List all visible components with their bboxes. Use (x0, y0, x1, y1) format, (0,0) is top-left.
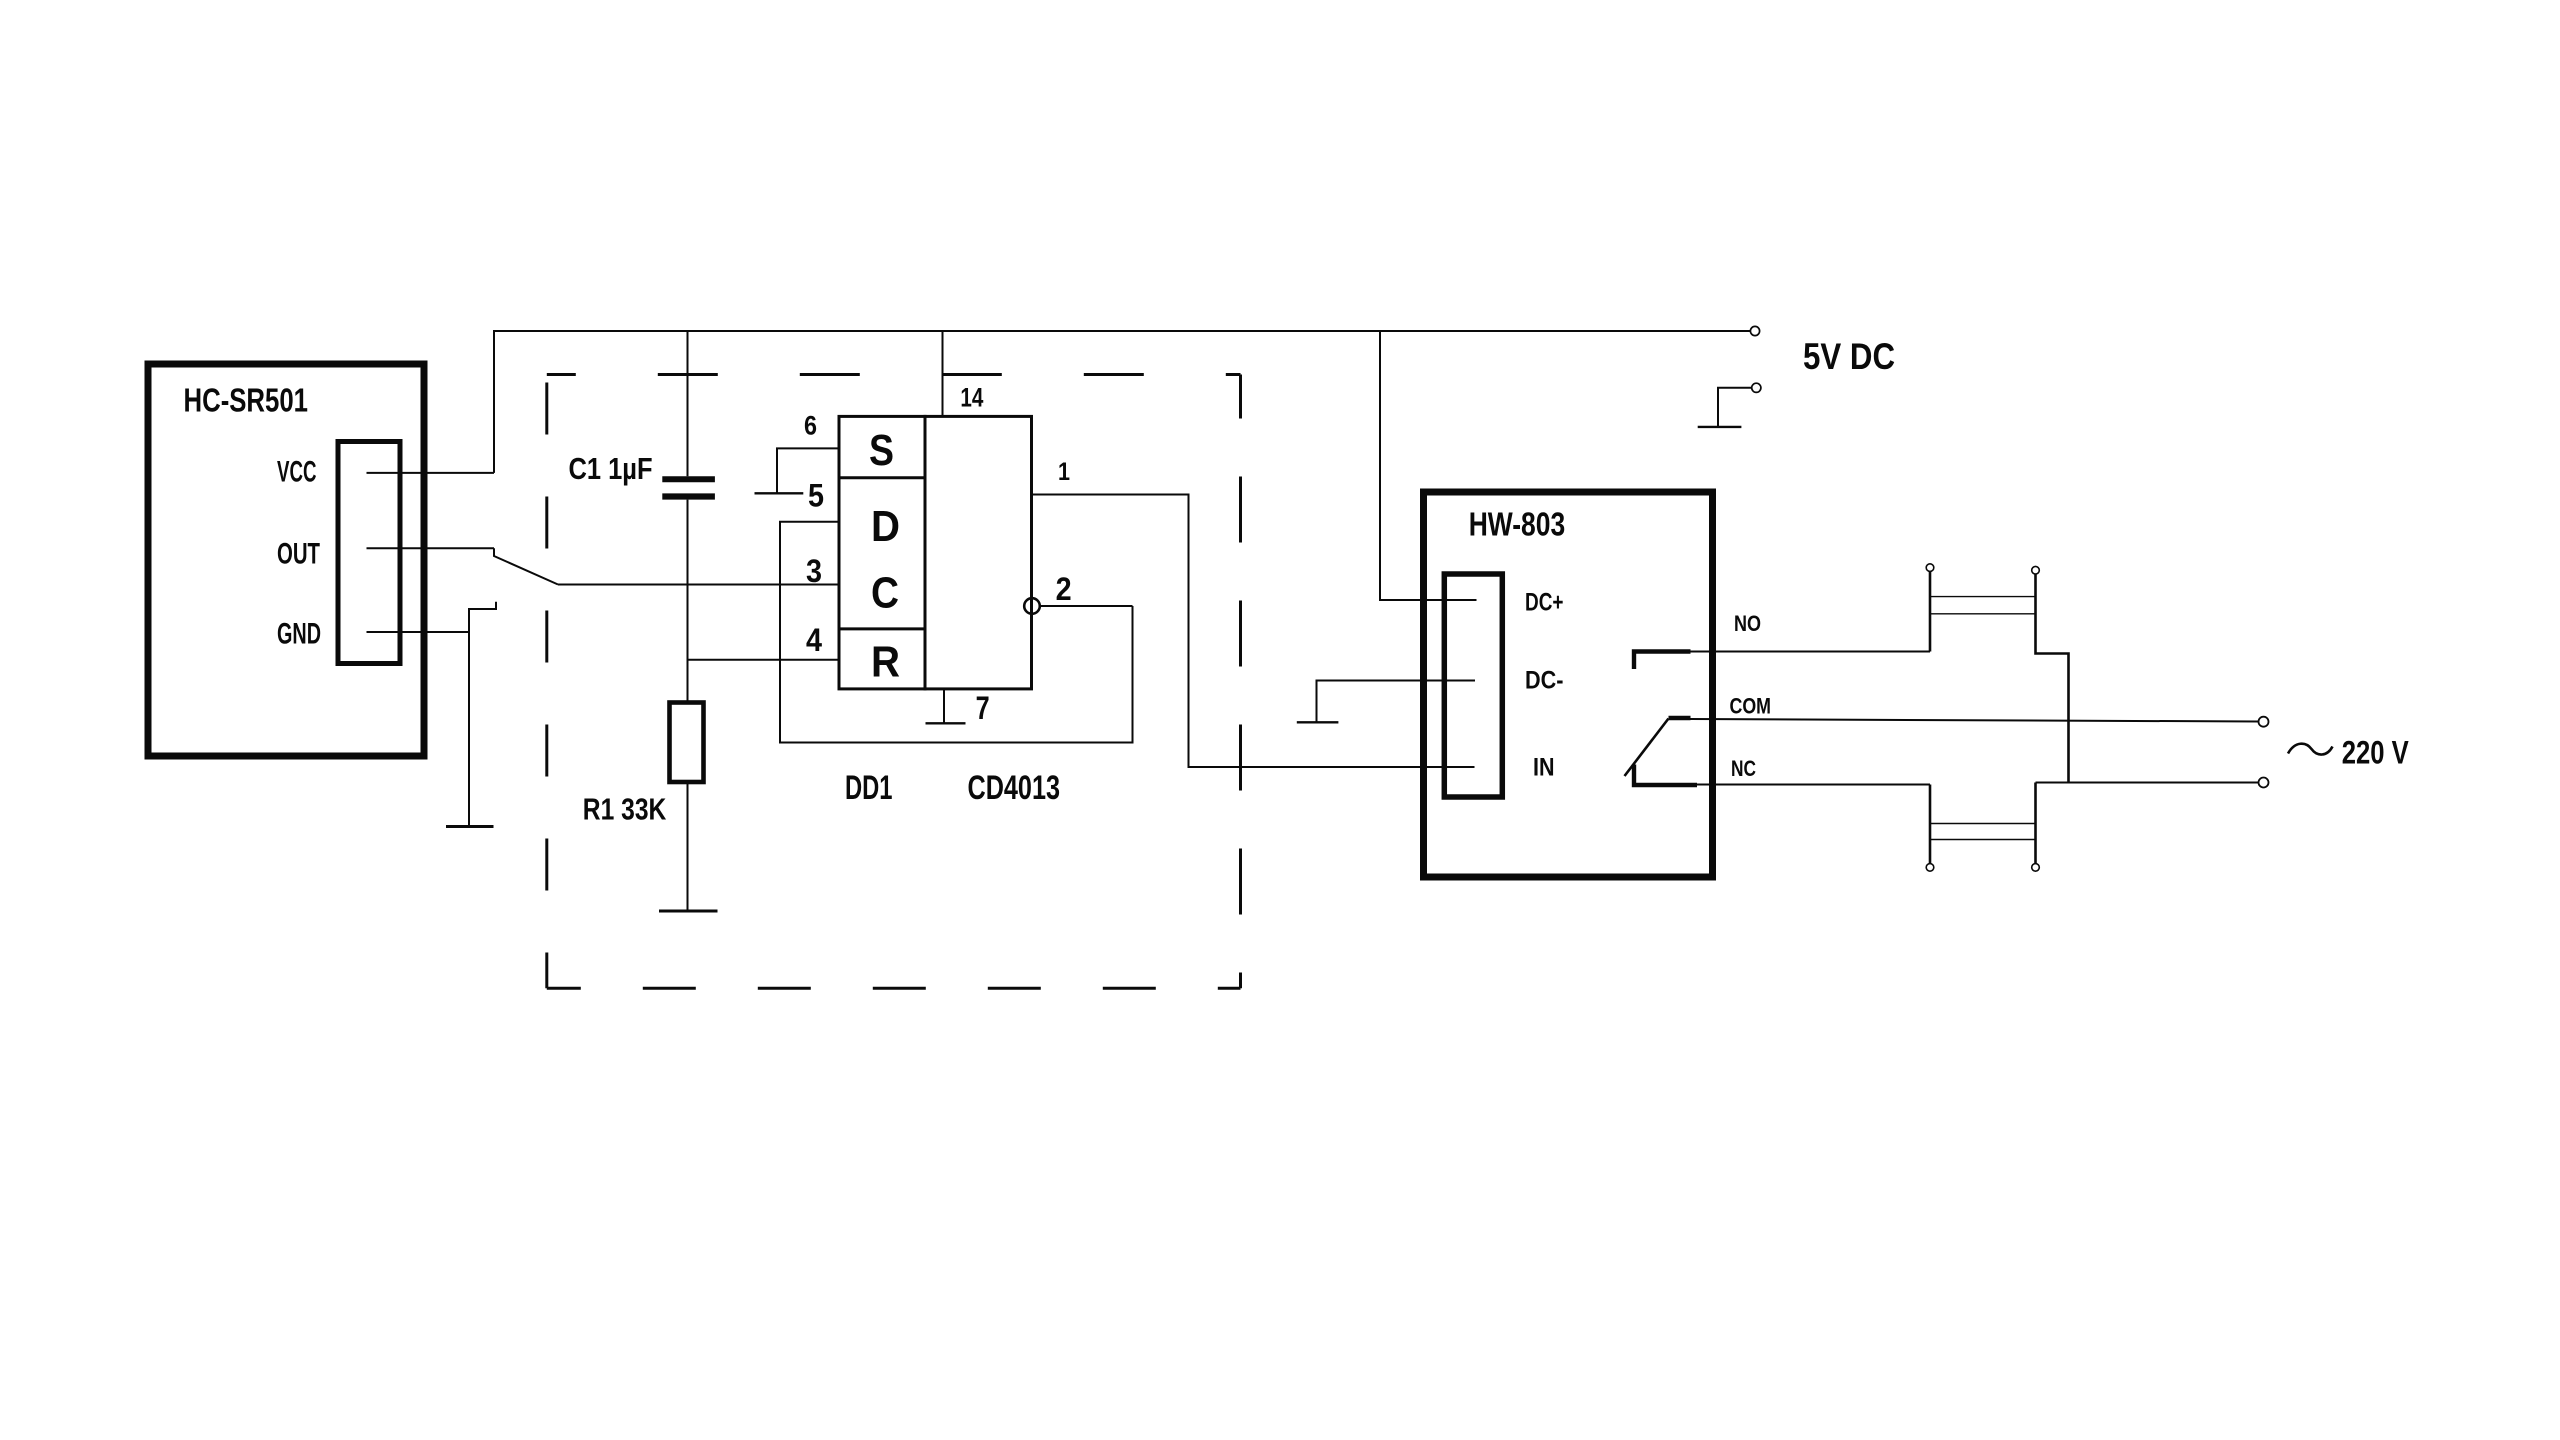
relay NO fixed contact (1634, 652, 1691, 670)
pin 2 inversion bubble (1024, 598, 1040, 614)
lamp EL1 right lead (2036, 574, 2069, 783)
svg-text:DC+: DC+ (1525, 589, 1564, 617)
pin VCC wire (367, 472, 495, 474)
wire 220V return line (2036, 782, 2259, 784)
lamp EL2 right lead (2034, 783, 2037, 864)
dashed enclosure left border (545, 375, 548, 989)
svg-text:R1 33K: R1 33K (583, 792, 667, 827)
module HC-SR501 box (148, 364, 424, 756)
pin 5 tie bar (755, 492, 804, 494)
svg-text:D: D (871, 502, 900, 551)
lamp EL1 left lead (1929, 571, 1932, 651)
svg-text:COM: COM (1730, 694, 1772, 719)
svg-text:14: 14 (960, 382, 983, 412)
ground symbol below R1 (659, 910, 718, 913)
pin 1 output wire to IN (1032, 495, 1475, 768)
svg-text:CD4013: CD4013 (968, 769, 1061, 807)
wire 5V DC negative lead (1718, 388, 1752, 427)
svg-text:HC-SR501: HC-SR501 (184, 383, 309, 420)
svg-text:S: S (869, 426, 894, 475)
connector of HC-SR501 (338, 442, 400, 664)
op-amp/flip-flop DD1 input section box (839, 416, 925, 689)
wire OUT switch stub (494, 548, 558, 584)
capacitor C1 lead top (687, 331, 689, 476)
flip-flop DD1 S/D divider (839, 476, 925, 479)
wire DC- to ground (1317, 681, 1476, 723)
AC tilde symbol (2288, 744, 2333, 755)
svg-text:DD1: DD1 (845, 769, 893, 807)
ground symbol at 5V DC negative (1698, 426, 1742, 428)
pin GND wire (367, 631, 470, 633)
svg-text:2: 2 (1056, 571, 1072, 607)
pin OUT wire (367, 547, 495, 549)
lamp EL2 socket right pin (2032, 864, 2040, 872)
svg-text:6: 6 (804, 411, 817, 441)
pin 7 ground wire (943, 689, 945, 723)
svg-text:C1 1µF: C1 1µF (569, 451, 653, 486)
svg-text:DC-: DC- (1525, 667, 1564, 695)
lamp EL2 left lead (1929, 785, 1932, 864)
pin 14 supply wire (942, 331, 944, 416)
lamp EL1 socket left pin (1926, 564, 1934, 572)
svg-text:GND: GND (277, 618, 321, 651)
dashed enclosure top border (547, 373, 1241, 376)
svg-text:3: 3 (806, 553, 822, 589)
svg-text:5V DC: 5V DC (1803, 335, 1895, 377)
relay NC fixed contact (1634, 765, 1697, 786)
node 220V top terminal (2259, 717, 2269, 727)
svg-text:OUT: OUT (277, 538, 320, 571)
svg-text:R: R (871, 638, 900, 687)
flip-flop DD1 C/R divider (839, 627, 925, 630)
resistor R1 body (670, 703, 704, 783)
capacitor C1 lead bottom to R1 (687, 500, 689, 703)
lamp EL2 socket left pin (1926, 864, 1934, 872)
ground symbol at DC- (1297, 721, 1339, 723)
svg-text:NO: NO (1734, 611, 1761, 636)
wire COM to 220V (1691, 719, 2259, 722)
svg-text:4: 4 (806, 622, 822, 658)
wire D feedback from pin 2 (780, 522, 1133, 743)
svg-text:HW-803: HW-803 (1469, 507, 1566, 544)
svg-text:1: 1 (1058, 458, 1070, 486)
wire top +5V rail (494, 330, 1750, 332)
wire rail drop to DC+ (1380, 331, 1477, 600)
module HW-803 box (1424, 492, 1713, 877)
flip-flop DD1 main body box (925, 416, 1032, 689)
wire rail drop to VCC (493, 330, 495, 473)
lamp EL1 socket right pin (2032, 566, 2040, 574)
svg-text:5: 5 (808, 478, 824, 514)
connector of HW-803 (1444, 574, 1502, 797)
ground symbol of HC-SR501 (446, 825, 494, 828)
node 220V bottom terminal (2259, 778, 2269, 788)
svg-text:VCC: VCC (277, 456, 317, 489)
svg-text:C: C (871, 569, 899, 618)
lamp EL2 body (1930, 823, 2036, 825)
dashed enclosure bottom border (547, 987, 1241, 990)
node 5V DC negative terminal (1752, 383, 1761, 392)
relay COM contact stub (1669, 716, 1691, 720)
svg-text:220 V: 220 V (2342, 734, 2410, 770)
svg-text:NC: NC (1731, 756, 1756, 781)
pin 4 reset wire (688, 659, 840, 661)
resistor R1 lead bottom (687, 782, 689, 911)
pin 6 wire to S (777, 448, 839, 493)
ground symbol at pin 7 (926, 722, 966, 724)
wire GND vertical with stub (469, 602, 496, 827)
relay movable arm (1625, 719, 1669, 777)
capacitor C1 plates (662, 476, 715, 482)
wire pin 2 to feedback (1040, 605, 1133, 607)
svg-text:7: 7 (976, 690, 990, 726)
svg-text:IN: IN (1533, 754, 1555, 782)
lamp EL1 body (1930, 596, 2036, 598)
wire NC to load (1697, 784, 1930, 786)
node 5V DC positive terminal (1750, 326, 1759, 335)
dashed enclosure right border (1239, 375, 1242, 989)
wire NO to load (1691, 651, 1931, 653)
wire clock line to pin 3 (558, 584, 839, 586)
